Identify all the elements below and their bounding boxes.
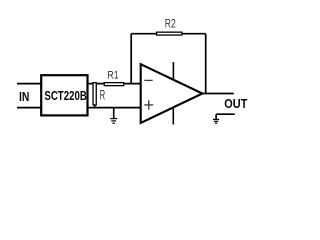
svg-text:R2: R2	[165, 17, 176, 31]
minus sign	[144, 79, 152, 81]
wire bottom input	[17, 107, 42, 109]
wire bottom box to opamp plus input	[88, 107, 141, 109]
wire feedback top left	[131, 33, 156, 35]
svg-text:R: R	[100, 88, 106, 103]
wire feedback left vertical	[130, 34, 132, 84]
svg-text:R1: R1	[107, 69, 118, 81]
wire top input	[17, 83, 42, 85]
component U1 SCT220B	[41, 75, 87, 115]
wire R1 to opamp minus input	[124, 83, 140, 85]
power pin top	[172, 62, 174, 80]
wire output	[202, 93, 233, 95]
resistor R1	[104, 69, 124, 85]
plus sign	[144, 104, 153, 106]
resistor R	[93, 83, 105, 108]
ground right	[213, 114, 235, 124]
resistor R2	[157, 17, 182, 35]
op-amp U2	[141, 62, 203, 124]
power pin bottom	[172, 107, 174, 124]
wire box to R1	[88, 83, 105, 85]
svg-text:SCT220B: SCT220B	[44, 88, 86, 103]
wire feedback right vertical	[205, 34, 207, 94]
svg-text:IN: IN	[19, 90, 29, 104]
svg-text:OUT: OUT	[224, 96, 247, 111]
wire feedback top right	[183, 33, 206, 35]
ground left	[110, 108, 117, 124]
